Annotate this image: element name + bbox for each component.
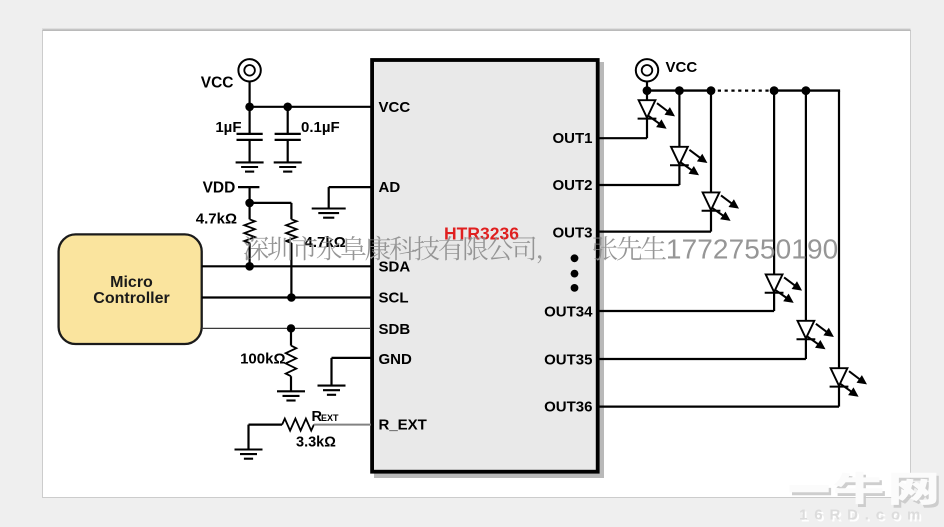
svg-text:OUT2: OUT2 — [552, 177, 592, 194]
svg-text:VCC: VCC — [666, 59, 698, 76]
svg-text:OUT34: OUT34 — [544, 303, 593, 320]
svg-text:OUT3: OUT3 — [552, 224, 592, 241]
svg-text:OUT36: OUT36 — [544, 399, 592, 416]
svg-text:SDB: SDB — [379, 321, 411, 338]
svg-text:17727550190: 17727550190 — [666, 233, 838, 264]
svg-text:SCL: SCL — [379, 290, 409, 307]
svg-text:VCC: VCC — [201, 74, 234, 91]
svg-text:4.7kΩ: 4.7kΩ — [196, 211, 237, 228]
svg-text:3.3kΩ: 3.3kΩ — [296, 435, 336, 451]
svg-text:Micro: Micro — [110, 274, 153, 291]
svg-text:16RD.com: 16RD.com — [799, 507, 928, 524]
svg-text:100kΩ: 100kΩ — [240, 350, 285, 367]
svg-text:VCC: VCC — [379, 99, 411, 116]
svg-text:R_EXT: R_EXT — [379, 417, 427, 434]
svg-text:Controller: Controller — [93, 290, 169, 307]
svg-text:OUT1: OUT1 — [552, 130, 592, 147]
svg-text:1µF: 1µF — [215, 119, 241, 136]
svg-text:GND: GND — [379, 351, 413, 368]
svg-text:SDA: SDA — [379, 259, 411, 276]
svg-text:OUT35: OUT35 — [544, 351, 592, 368]
svg-text:VDD: VDD — [203, 179, 236, 196]
svg-text:AD: AD — [379, 179, 401, 196]
svg-text:EXT: EXT — [321, 413, 339, 423]
svg-text:0.1µF: 0.1µF — [301, 119, 340, 136]
